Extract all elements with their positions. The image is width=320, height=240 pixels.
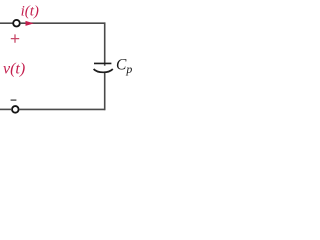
svg-text:v(t): v(t) bbox=[3, 61, 25, 78]
plus polarity sign bbox=[11, 34, 19, 42]
wire: top-left terminal stub bbox=[0, 22, 13, 24]
wire: right vertical, capacitor top lead bbox=[104, 22, 106, 65]
minus polarity sign bbox=[11, 99, 17, 101]
wire: bottom-left terminal stub bbox=[0, 108, 12, 110]
wire: bottom conductor bbox=[19, 108, 105, 110]
svg-text:i(t): i(t) bbox=[21, 3, 39, 19]
node: bottom (-) terminal bbox=[12, 106, 19, 113]
wire: right vertical, capacitor bottom lead bbox=[104, 73, 106, 111]
arrow: current direction i(t) bbox=[26, 21, 34, 26]
capacitor Cp: flat top plate bbox=[94, 62, 111, 64]
wire: top conductor bbox=[20, 22, 105, 24]
node: top (+) terminal bbox=[13, 20, 20, 27]
capacitor Cp: curved bottom plate bbox=[94, 69, 113, 72]
svg-text:Cp: Cp bbox=[116, 56, 132, 76]
